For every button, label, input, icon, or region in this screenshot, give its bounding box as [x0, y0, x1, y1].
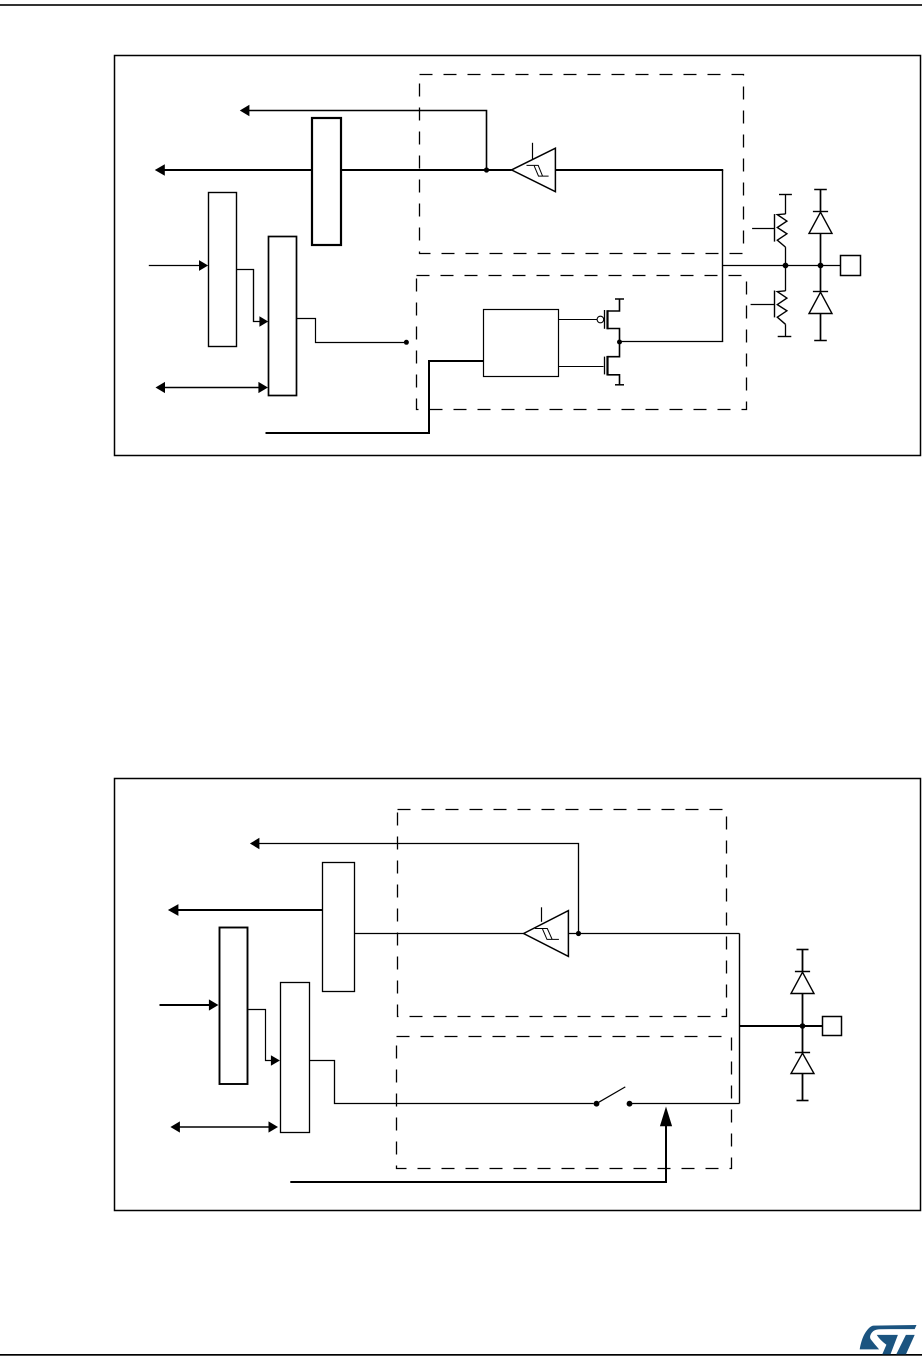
wire: output stage to pad bus (fig1) [620, 341, 724, 343]
arrowhead into R2 (fig1) [199, 260, 208, 271]
arrowhead into C (fig2) [271, 1055, 280, 1066]
weak pull-up resistor (fig1) [752, 195, 792, 266]
wire: bidirectional bus (fig2) [179, 1126, 270, 1128]
wire: bidirectional data bus (fig1) [164, 387, 260, 389]
arrowhead data-out left (fig1) [240, 105, 250, 116]
wire: pad bus vertical (fig1) [722, 170, 724, 342]
wire: thick read arrow from A (fig2) [177, 909, 323, 911]
schmitt enable tick (fig2) [541, 907, 543, 922]
arrowhead into R3 (fig1) [259, 316, 268, 327]
arrowhead input read left (fig1) [155, 164, 165, 176]
hysteresis glyph (fig2) [535, 929, 559, 940]
register block R3 (fig1) [269, 237, 297, 396]
schmitt trigger U1 (fig1) [512, 148, 556, 192]
node dot at schmitt output (fig1) [484, 167, 489, 172]
protection diode to VSS (fig2) [791, 1026, 814, 1101]
analog dashed box (fig2) [397, 1037, 732, 1169]
protection diode to VDD (fig1) [809, 190, 832, 266]
wire: switch to pad bus (fig2) [630, 1103, 740, 1105]
node dot on schmitt input line (fig2) [576, 931, 581, 936]
pmos Q1 (fig1) [605, 299, 625, 342]
protection diode to VSS (fig1) [809, 266, 832, 341]
arrowhead bus right (fig2) [269, 1121, 279, 1132]
wire: pmos gate (fig1) [559, 319, 598, 321]
pmos gate bubble (fig1) [597, 316, 604, 323]
wire: C output to analog switch (fig2) [310, 1061, 594, 1104]
wire: pad bus vertical (fig2) [739, 934, 741, 1104]
wire: pad line (fig1) [723, 265, 842, 267]
pad square (fig1) [841, 256, 861, 276]
pad junction dot left (fig1) [783, 263, 789, 269]
input section dashed box (fig1) [420, 75, 744, 254]
node dot end of R3 wire (fig1) [404, 340, 409, 345]
wire: switch control with up arrow (fig2) [290, 1126, 666, 1183]
protection diode to VDD (fig2) [791, 950, 814, 1027]
nmos Q2 (fig1) [605, 342, 625, 385]
node dot push-pull output (fig1) [617, 340, 622, 345]
wire: R3 output to node (fig1) [297, 319, 405, 343]
register block R1 (fig1) [312, 118, 341, 245]
wire: pad line (fig2) [740, 1025, 823, 1027]
wire: nmos gate (fig1) [559, 366, 604, 368]
wire: schmitt input from pad bus (fig1) [555, 169, 723, 171]
arrowhead thick read left (fig2) [168, 904, 179, 916]
arrowhead bus left (fig2) [170, 1121, 180, 1132]
wire: output enable into control block (fig1) [266, 361, 484, 433]
output section dashed box (fig1) [417, 276, 747, 410]
register block B (fig2) [220, 928, 248, 1085]
arrowhead data read left (fig2) [250, 838, 260, 849]
weak pull-down resistor (fig1) [751, 266, 792, 337]
wire: input arrow into R2 (fig1) [149, 265, 200, 267]
ST logo [860, 1325, 917, 1354]
wire: B to C select (fig2) [249, 1010, 272, 1061]
schmitt enable tick (fig1) [532, 143, 534, 160]
arrowhead into B (fig2) [209, 999, 219, 1010]
figure 1 frame [115, 56, 921, 456]
schmitt trigger U2 (fig2) [524, 911, 569, 957]
arrowhead bus left (fig1) [156, 382, 166, 393]
hysteresis glyph (fig1) [527, 165, 549, 176]
wire: data read tap to schmitt input (fig2) [259, 844, 579, 934]
arrowhead bus right (fig1) [258, 382, 268, 393]
wire: schmitt output to A (fig2) [355, 933, 524, 935]
pad junction dot (fig2) [800, 1023, 806, 1029]
analog switch (fig2) [594, 1087, 633, 1107]
footer rule [0, 1354, 922, 1356]
wire: input arrow into B (fig2) [160, 1004, 211, 1006]
arrowhead up (fig2) [660, 1107, 672, 1127]
wire: data-out read line to node (fig1) [249, 111, 487, 170]
wire: R2 to R3 select (fig1) [237, 270, 261, 322]
input dashed box (fig2) [398, 810, 727, 1017]
output control block (fig1) [484, 310, 559, 377]
register block A (fig2) [323, 863, 355, 992]
wire: input read line through register (fig1) [164, 169, 512, 171]
pad junction dot right (fig1) [818, 263, 824, 269]
figure 2 frame [115, 779, 921, 1211]
register block C (fig2) [281, 983, 310, 1133]
wire: schmitt input from pad bus (fig2) [568, 933, 739, 935]
pad square (fig2) [823, 1017, 842, 1036]
header rule [0, 4, 922, 6]
register block R2 (fig1) [209, 193, 237, 347]
